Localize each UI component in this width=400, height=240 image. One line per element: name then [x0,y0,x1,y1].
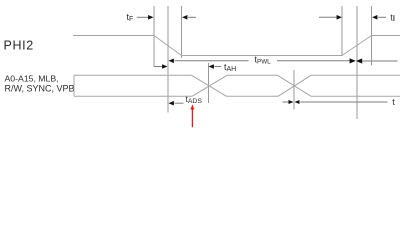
extension line at x=168 (PHI2 fall 50%) [167,6,169,113]
bus crossover 2 [278,75,312,96]
red annotation arrow pointing up at tADS [191,104,195,127]
bus crossover 1 [192,75,227,96]
dimension (right, cut off) : left arrow at x=357 continuing to edge [356,58,362,63]
PHI2 high line left [73,35,154,37]
extension line at x=181.5 (PHI2 fall end) [181,6,183,58]
PHI2 waveform [73,36,400,56]
bus top line 2 [227,74,278,76]
address bus waveform [74,75,400,96]
label A0-A15, MLB, / R/W, SYNC, VPB [5,73,75,93]
PHI2 falling edge [154,36,182,56]
dimension tADS : left arrow at x=168, label [169,101,174,106]
bus left edge [73,75,75,96]
svg-text:R/W, SYNC, VPB: R/W, SYNC, VPB [5,84,75,94]
bus bottom line 1 [74,95,192,97]
extension line at x=342 (PHI2 rise start) [341,6,343,56]
extension line at x=371.5 (PHI2 rise end) [371,6,373,66]
bus top line 3 [311,74,400,76]
bus top line 1 [74,74,192,76]
PHI2 low line [182,55,343,57]
svg-text:PHI2: PHI2 [4,38,34,52]
dimension tR : arrow right at x=342, arrow left at x=371.5, label at right edge [319,16,337,18]
PHI2 high line right [372,35,400,37]
dimension tPWL : left arrow at x=168, line with label gap, right arrow at x=356 [169,59,174,64]
dimension tAH : outside arrow right at x=168, outside arrow left at x=208.5, label [154,66,163,68]
bus bottom line 3 [311,95,400,97]
PHI2 rising edge [342,36,372,56]
extension line at x=154 (PHI2 fall start) [153,6,155,67]
bus bottom line 2 [227,95,279,97]
dimension (bottom, bowtie at x=294) with label t cut off at right edge [283,101,290,103]
svg-text:A0-A15, MLB,: A0-A15, MLB, [5,73,59,83]
extension line at x=208.5 (address change) [208,63,210,103]
extension line at x=294 (second crossover) [293,70,295,110]
extension line at x=357 (PHI2 rise 50%) [356,6,358,119]
